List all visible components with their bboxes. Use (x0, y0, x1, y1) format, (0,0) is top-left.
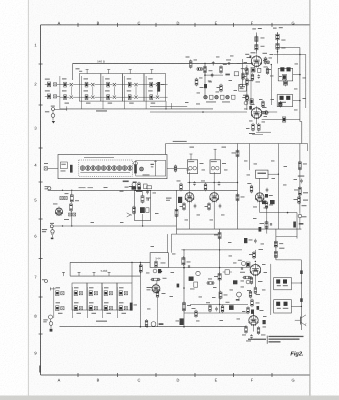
extra V2 region smudges (244, 104, 267, 129)
mid box (58, 155, 167, 179)
mid right res1 (298, 161, 307, 171)
wire y168 right of box (167, 165, 187, 173)
x184 lower parts (176, 301, 192, 325)
V5 parts (247, 183, 273, 209)
bus x176 (176, 190, 178, 234)
label under chain B (96, 321, 107, 322)
mid box right compartment (136, 160, 166, 176)
tube V6 (250, 250, 261, 276)
bottom parts row (204, 95, 235, 102)
wire bus y225 (53, 225, 176, 226)
wire chain B bottom (60, 326, 247, 328)
delay line A input section (45, 79, 60, 99)
delay line A cell wires and value labels (60, 76, 158, 109)
chain A output risers (165, 101, 171, 110)
input jack J1 (45, 106, 67, 124)
supply chain A x256 (252, 28, 264, 54)
cluster below mid box (129, 182, 149, 195)
wire y75 (205, 74, 223, 76)
mid box right parts (134, 160, 157, 176)
left grid ticks (39, 64, 43, 334)
page edge right (309, 0, 311, 397)
loop2 to bus wire (293, 100, 301, 102)
V3 cathode parts (180, 202, 197, 211)
top grid letters A-G (58, 20, 295, 25)
wire y229 (177, 228, 302, 230)
mid box bottom parts (123, 181, 137, 183)
capacitor C10 (209, 61, 215, 77)
right vertical x184 (183, 249, 185, 327)
wire y236 (276, 236, 297, 238)
mid bus x278 (277, 144, 279, 230)
HT wire y47.5 (278, 47, 300, 49)
bus part between boxes (300, 270, 303, 302)
stage2 lower xboxes (69, 213, 76, 216)
mid right parts (294, 176, 305, 184)
corner marks (39, 366, 40, 373)
label 5463 (101, 269, 108, 273)
V6 left knot (238, 260, 250, 273)
transformer T1 (187, 154, 197, 174)
mid wire y143.5 (166, 141, 308, 155)
V1 labels (245, 52, 267, 67)
feedback loop 1 parts (279, 67, 291, 79)
stage2 mid box (134, 191, 150, 221)
risers into regulator (168, 234, 172, 253)
mid box dotted inner (79, 160, 133, 176)
box1 to bus (291, 282, 302, 283)
small parts y74 (225, 72, 238, 76)
V2 bottom wires (252, 132, 271, 134)
mid bus x249 (248, 144, 250, 171)
extra V1 region smudges (244, 56, 273, 72)
part below loop1 (283, 80, 287, 87)
wire V6 left (168, 267, 250, 269)
supply chain x276 (274, 229, 284, 260)
left circle part (236, 292, 242, 301)
fig 2 label (290, 351, 304, 358)
V5 cathode line (260, 201, 286, 212)
interstage chain (242, 65, 248, 110)
tube V8 (55, 207, 63, 217)
wire y212 arrow (286, 212, 297, 214)
V6 top parts (249, 249, 263, 262)
mid right bus (299, 144, 301, 214)
stage2 mid box arrow (127, 213, 132, 217)
bus x219 top part (214, 231, 221, 240)
V6 below-left parts (241, 276, 252, 284)
osc box to bus wire (268, 174, 279, 175)
V1 right-side parts (264, 54, 273, 75)
bus x219 (219, 229, 220, 313)
V4 cathode line (213, 202, 215, 230)
wire stage3 feed (70, 262, 150, 276)
mid right lower part (298, 214, 302, 229)
feedback loop 2 box (277, 95, 293, 107)
bottom parts row (192, 302, 234, 318)
wire chain B top (70, 275, 140, 277)
mid bus x237 parts (232, 149, 245, 202)
wire bus y190 (48, 187, 238, 191)
chain B top stubs (62, 272, 111, 276)
page edge left (27, 0, 29, 397)
left edge vertical x242 (240, 59, 243, 87)
wire under transformers (187, 182, 238, 183)
V5 surroundings extra (253, 194, 273, 232)
stage2 mid vertical (142, 191, 143, 227)
V6V7 column extra parts (251, 306, 264, 314)
mid box left parts (44, 162, 73, 173)
input jack J2 (42, 223, 54, 239)
mid right res2 (294, 186, 301, 196)
bus x297 mid lower (293, 213, 303, 239)
bus x301 lower (300, 260, 302, 330)
wire grid V2 left (150, 106, 187, 108)
chain B end element (130, 303, 137, 311)
left lower parts (189, 271, 215, 289)
transformer area smudges (190, 147, 227, 164)
mid box row leads (80, 157, 130, 173)
delay line A cell boxes (79, 74, 165, 102)
bottom grid ticks (78, 373, 272, 377)
tube V3 (185, 172, 194, 202)
left grid numbers 1-9 (34, 42, 37, 355)
below regulator parts (151, 269, 167, 281)
grid box (239, 84, 247, 91)
wire y313 (184, 312, 249, 314)
stage2 mid box res (141, 195, 150, 204)
jack at wire start (45, 186, 51, 190)
tube V5 (255, 178, 264, 202)
delay line A bottom row elements (60, 95, 168, 100)
tube V1 (251, 55, 261, 68)
HT bus x300 (300, 48, 302, 144)
stage2 xboxes (60, 196, 67, 199)
HT wire y54.5 (274, 54, 306, 55)
V5 cathode lower (260, 221, 272, 230)
chain A corner marks (76, 68, 83, 71)
x184 parts (177, 256, 191, 289)
delay line B cell wires and labels (54, 287, 126, 318)
wire top feed (73, 64, 252, 81)
bottom right transistor (295, 315, 306, 326)
wire chain bottom extension (150, 111, 247, 113)
V3 cathode line (189, 202, 191, 230)
V3 grid parts (177, 181, 196, 192)
coupling line V1V2 (250, 67, 252, 109)
resistor R10a (196, 68, 204, 71)
page edge bottom (0, 396, 339, 400)
V7 parts (242, 320, 266, 341)
lower mid parts (247, 290, 260, 314)
bus x219 parts (214, 272, 228, 299)
loop1 to bus wire (293, 74, 301, 76)
vertical bus x205 (204, 63, 206, 99)
wire y234 (172, 233, 220, 235)
border frame (41, 25, 310, 375)
tube V4 (210, 172, 219, 202)
wire y119 to bus (262, 117, 300, 122)
chain B end riser (131, 262, 132, 283)
wire y249.9 (181, 249, 242, 251)
long vertical x140 (139, 262, 142, 326)
stage2 mid knot on wire (125, 186, 152, 190)
part below loop2 (279, 101, 282, 108)
feedback loop 1 box (278, 68, 293, 81)
V4 grid parts (201, 181, 220, 192)
anode drop line x271 (271, 64, 272, 105)
V6 grid upper parts (244, 238, 257, 243)
V5 lower dark parts (262, 200, 275, 234)
V2 top parts (243, 95, 253, 105)
stage2 mid box knot (133, 206, 150, 215)
left-mid extra parts (195, 78, 211, 89)
stage3 tube parts (147, 287, 166, 327)
bus x271 (270, 264, 272, 315)
mid bus x237 (237, 144, 239, 230)
resistor R11 (186, 57, 193, 69)
stage3 tube (152, 280, 160, 293)
HT bus x306 (305, 55, 307, 109)
box2 to bus (291, 306, 302, 307)
transformer T2 (210, 149, 220, 173)
output box 1 parts (276, 279, 288, 286)
bus x176 parts (166, 197, 182, 218)
delay line B top row elements (56, 291, 128, 296)
output box 2 parts (276, 302, 288, 309)
regulator box (150, 253, 168, 268)
top grid ticks (78, 23, 272, 27)
resistor R13 (217, 84, 223, 93)
capacitor C11 (226, 60, 231, 65)
stage2 smudges (53, 193, 79, 220)
stage2 vertical (71, 190, 73, 226)
delay line B cell boxes (72, 283, 132, 310)
resistor R10 (204, 65, 207, 74)
notes text (248, 336, 304, 344)
wire chain A bottom (60, 108, 213, 110)
label 546B (97, 59, 105, 63)
resistor R12 (220, 64, 227, 74)
wire y304 (190, 304, 248, 305)
parts above bottom wire (145, 319, 163, 327)
V2 anode wire (267, 111, 277, 113)
label under chain A (96, 110, 107, 111)
dense knot below V1 (241, 68, 261, 83)
output box 1 (274, 278, 292, 290)
wire y259.9 (276, 259, 302, 261)
chain B input lead (50, 287, 55, 290)
mid right text smudges (302, 192, 309, 217)
feedback loop 2 parts (280, 96, 291, 103)
input jack J3 (43, 315, 53, 332)
bottom grid letters A-G (58, 378, 295, 383)
small jack y281 (42, 279, 48, 282)
V2 side parts (249, 99, 264, 110)
V6 cathode chain (247, 275, 263, 294)
mid right res3 (294, 196, 301, 205)
delay line B bottom row elements (56, 306, 128, 311)
extra texture smudges (91, 56, 307, 328)
V2 cathode resistors (249, 118, 260, 134)
oscillator box (256, 170, 268, 178)
parts right of bus (223, 270, 238, 285)
stage2 res1 (70, 194, 73, 203)
V2 right part (260, 107, 268, 114)
delay line A top row elements (60, 82, 168, 87)
tube V2 (251, 106, 261, 119)
chain A end dark element (157, 82, 164, 92)
tube V7 (249, 313, 259, 326)
mid box heater row (80, 166, 132, 171)
delay line A top stubs (86, 70, 154, 74)
V4 cathode parts (205, 202, 222, 211)
supply chain B x277 (273, 27, 286, 63)
output box 2 (274, 300, 292, 313)
stage2 res2 (70, 203, 73, 212)
